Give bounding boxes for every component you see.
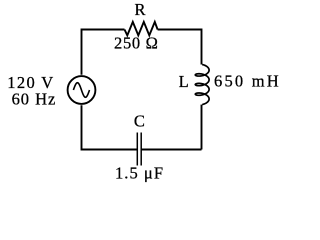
wire bottom-right segment xyxy=(141,149,201,151)
svg-text:250 Ω: 250 Ω xyxy=(114,34,158,53)
wire top-right segment xyxy=(158,30,202,65)
voltage source sine wave xyxy=(73,83,89,98)
inductor L coil xyxy=(195,65,209,105)
svg-text:650 mH: 650 mH xyxy=(214,71,279,90)
svg-text:60 Hz: 60 Hz xyxy=(12,90,56,109)
wire bottom-left segment xyxy=(82,105,138,149)
svg-text:L: L xyxy=(179,72,189,91)
capacitor C right plate xyxy=(140,133,142,166)
capacitor C left plate xyxy=(136,133,138,166)
wire top-left segment xyxy=(82,30,125,75)
resistor R xyxy=(125,22,158,36)
svg-text:1.5 μF: 1.5 μF xyxy=(115,164,163,183)
svg-text:C: C xyxy=(134,112,145,131)
wire right-bottom segment xyxy=(201,105,203,150)
voltage source circle xyxy=(68,76,96,104)
svg-text:R: R xyxy=(134,0,145,19)
